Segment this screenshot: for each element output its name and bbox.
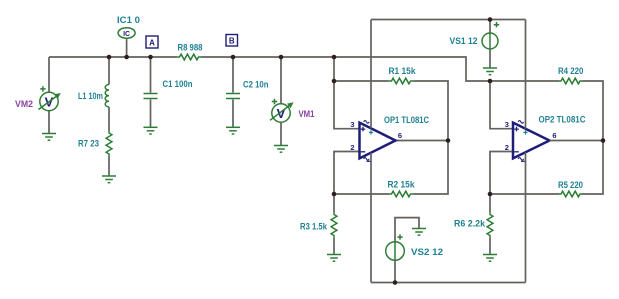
resistor R4 [558,78,583,84]
svg-text:R4 220: R4 220 [558,66,583,77]
ground below VM2 [42,134,56,141]
junction VS1 top rail [488,17,493,22]
wire R4 left [490,80,559,82]
wire R5 left [490,193,559,195]
svg-text:A: A [149,38,155,47]
svg-text:OP1 TL081C: OP1 TL081C [384,115,429,126]
svg-text:C2 10n: C2 10n [243,80,269,91]
voltage source VS2 [386,218,419,283]
voltmeter VM1 [270,99,294,122]
wire bottom rail [371,282,526,284]
wire R7 to ground [108,157,110,177]
svg-text:6: 6 [398,131,402,140]
wire R5 right rise to OP2 output [583,141,604,195]
svg-text:R7 23: R7 23 [78,139,99,150]
ground below C1 [144,127,158,134]
resistor R7 [106,131,112,157]
op-amp OP2 [505,120,557,161]
svg-text:VS2 12: VS2 12 [411,247,443,258]
wire C1 bottom [150,99,152,127]
svg-text:R6 2.2k: R6 2.2k [454,219,486,230]
junction node A [148,55,153,60]
svg-text:6: 6 [552,131,556,140]
wire OP1 inverting input branch [334,152,360,195]
wire L1 top [108,57,110,85]
junction VS2 bottom rail [393,280,398,285]
inductor L1 [105,85,109,107]
node A [146,36,158,48]
capacitor C1 [144,94,158,99]
svg-text:3: 3 [505,120,509,129]
svg-text:B: B [229,37,235,46]
junction node B [231,55,236,60]
resistor R2 [389,191,414,197]
svg-text:R2 15k: R2 15k [388,180,416,191]
wire R1 right drop to OP1 output [414,81,449,141]
wire R2 left [334,193,389,195]
wire R4 right drop to OP2 output [583,81,604,141]
ground below R7 [102,176,116,183]
wire between L1 and R7 [108,107,110,131]
wire VM2 bottom [48,111,50,134]
svg-text:3: 3 [350,120,354,129]
ground below R3 [327,255,341,262]
svg-text:IC1 0: IC1 0 [117,15,140,26]
wire C2 top [232,57,234,93]
wire OP1 output [396,140,449,142]
svg-text:VM2: VM2 [15,99,33,110]
junction VM1/bus [279,55,284,60]
capacitor C2 [226,94,240,99]
resistor R3 [333,194,335,212]
wire C2 bottom [232,99,234,127]
wire main bus left [49,56,177,58]
svg-text:R8 988: R8 988 [178,42,203,53]
junction IC1/bus [124,55,129,60]
junction L1/bus [107,55,112,60]
resistor R6 [489,194,491,212]
wire OP2 V+ power [525,20,527,129]
wire OP2 V- power [525,152,527,282]
resistor R1 [389,78,414,84]
ground below R6 [483,255,497,262]
ground for VS2 [412,229,426,236]
initial condition IC1 [118,28,135,38]
wire R2 right rise to OP1 output [414,141,449,195]
svg-text:IC: IC [123,31,130,38]
voltmeter VM2 [39,86,61,111]
wire main bus right with jog down to OP2 input node [202,57,491,81]
wire R6 to ground [489,238,491,255]
svg-text:L1 10m: L1 10m [78,91,103,102]
svg-text:C1 100n: C1 100n [163,79,193,90]
svg-text:R1 15k: R1 15k [389,66,417,77]
wire C1 top [150,57,152,93]
ground below C2 [226,127,240,134]
wire top rail [371,19,526,21]
wire OP2 output [550,140,604,142]
junction R1 tap [332,79,337,84]
wire VM1 top [280,57,282,104]
svg-text:2: 2 [505,143,509,152]
svg-text:R5 220: R5 220 [558,180,583,191]
svg-text:VS1 12: VS1 12 [450,36,478,47]
wire VM1 bottom [280,122,282,145]
junction OP1 input/bus [332,55,337,60]
junction R2 R3 node [332,192,337,197]
wire R3 to ground [333,238,335,255]
junction OP2 output [601,138,606,143]
junction OP1 output [446,138,451,143]
resistor R8 [177,54,202,60]
svg-text:2: 2 [350,143,354,152]
wire IC1 stem [126,38,128,57]
svg-text:VM1: VM1 [299,109,316,120]
wire OP1 V+ power [370,20,372,129]
wire OP2 noninverting input branch [490,81,513,129]
ground below VM1 [274,146,288,153]
op-amp OP1 [350,120,402,161]
wire R1 left [334,80,389,82]
wire VM2 top [48,57,50,92]
svg-text:OP2 TL081C: OP2 TL081C [539,115,586,126]
voltage source VS1 [482,20,499,69]
wire OP2 inverting input branch [490,152,513,195]
wire OP1 noninverting input branch [334,57,360,129]
junction OP2 input node [488,79,493,84]
node B [226,35,238,47]
ground below VS1 [483,68,497,75]
resistor R5 [558,191,583,197]
svg-text:R3 1.5k: R3 1.5k [300,222,328,233]
junction R5 R6 node [488,192,493,197]
wire OP1 V- power [370,153,372,283]
